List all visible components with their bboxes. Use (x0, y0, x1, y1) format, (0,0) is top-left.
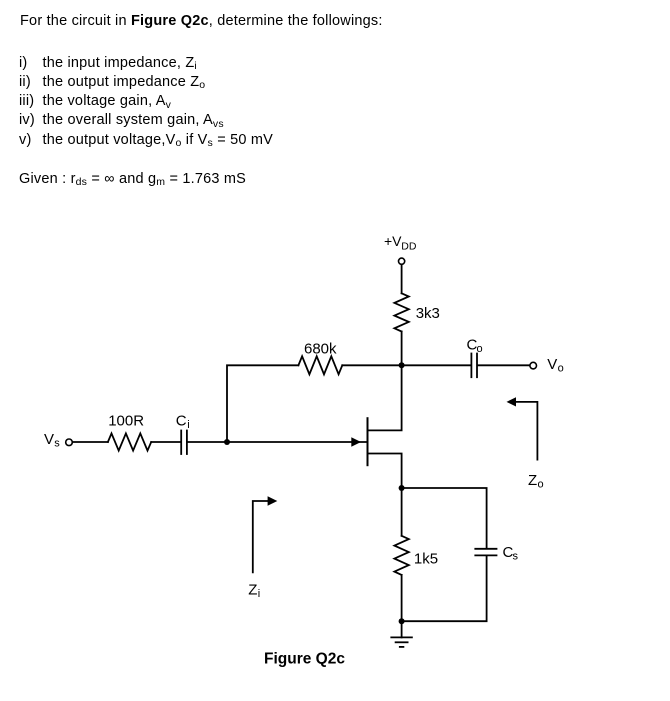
svg-text:o: o (558, 363, 564, 375)
wire gate junction up (227, 365, 298, 442)
label Ci (176, 413, 190, 432)
transistor Q1 gate bar (367, 418, 369, 465)
resistor R1 3k3 (394, 293, 408, 331)
label Vo (547, 356, 563, 375)
label Zo (528, 472, 544, 491)
Q1 drain lead (368, 365, 402, 430)
label Zi (248, 582, 260, 601)
svg-text:V: V (44, 431, 54, 448)
value label 100R (108, 413, 144, 430)
gate arrowhead (351, 437, 361, 447)
capacitor Cs (475, 549, 496, 556)
svg-text:s: s (54, 438, 60, 450)
Zo arrow (507, 397, 538, 459)
resistor R3 100R (108, 433, 151, 450)
wire source node to R4 (401, 488, 403, 536)
svg-text:Z: Z (528, 472, 537, 489)
resistor R2 680k (298, 356, 342, 374)
svg-text:3k3: 3k3 (416, 305, 440, 322)
wire Cs to bottom (402, 556, 487, 621)
capacitor Ci (181, 431, 187, 455)
svg-text:680k: 680k (304, 341, 337, 358)
wire drain node to Co (402, 364, 471, 366)
svg-text:+V: +V (384, 233, 402, 249)
svg-text:100R: 100R (108, 413, 144, 430)
label Co (467, 337, 483, 356)
+VDD terminal (399, 258, 405, 264)
wire Vs to R3 (73, 441, 108, 443)
+VDD supply label (384, 233, 417, 253)
wire R4 to ground node (401, 575, 403, 621)
wire R1 to drain node (401, 332, 403, 366)
svg-text:s: s (513, 551, 519, 563)
capacitor Co (471, 354, 477, 378)
wire VDD to R1 (401, 265, 403, 294)
ground (391, 621, 412, 647)
caption Figure Q2c (264, 651, 345, 668)
wire source node to Cs branch (402, 488, 487, 548)
Zi arrow (253, 496, 277, 572)
label Cs (503, 544, 519, 563)
svg-text:i: i (187, 419, 189, 431)
label Vs (44, 431, 60, 450)
node drain junction (399, 362, 405, 368)
svg-text:1k5: 1k5 (414, 551, 438, 568)
Q1 source lead (368, 454, 402, 489)
wire gate junction to Q1 gate (227, 441, 367, 443)
node source junction (399, 485, 405, 491)
svg-text:o: o (538, 479, 544, 491)
wire R2 to drain node (342, 364, 401, 366)
node gate junction (224, 439, 230, 445)
wire Co to Vo terminal (478, 364, 530, 366)
svg-text:Z: Z (248, 582, 257, 599)
value label 1k5 (414, 551, 438, 568)
svg-text:i: i (258, 588, 260, 600)
value label 3k3 (416, 305, 440, 322)
wire Ci to gate junction (188, 441, 227, 443)
wire R3 to Ci (151, 441, 180, 443)
Vo terminal (530, 362, 537, 369)
problem statement text (20, 13, 383, 29)
svg-text:Figure Q2c: Figure Q2c (264, 651, 345, 668)
svg-text:DD: DD (401, 241, 417, 253)
svg-text:C: C (176, 413, 187, 430)
svg-text:V: V (547, 356, 557, 373)
node ground junction (399, 618, 405, 624)
svg-text:o: o (477, 343, 483, 355)
value label 680k (304, 341, 337, 358)
resistor R4 1k5 (394, 536, 408, 575)
Vs source terminal (66, 439, 73, 446)
